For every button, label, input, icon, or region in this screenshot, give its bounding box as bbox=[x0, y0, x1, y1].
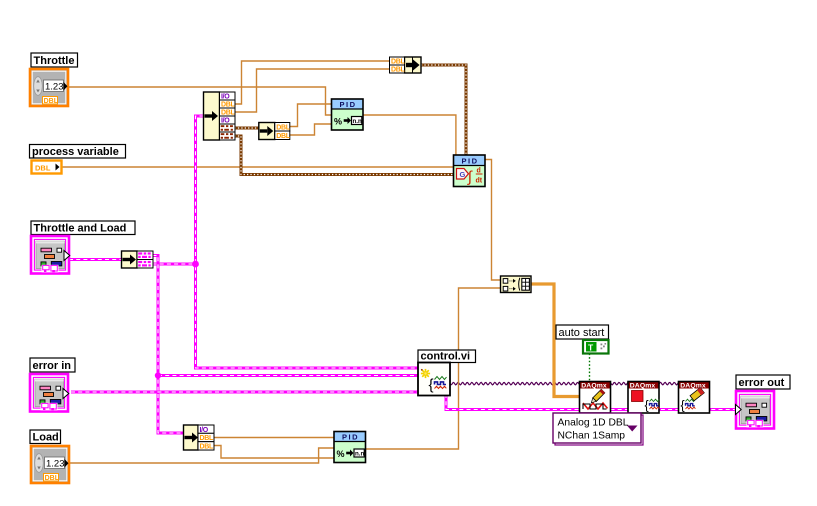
wire Throttle to PID1 setpoint bbox=[68, 87, 332, 115]
wire unbundle part1 vertical B to unbundle3 bbox=[153, 256, 184, 434]
wire unbundle2 bottom to PID1 bbox=[290, 124, 333, 135]
svg-text:Load: Load bbox=[33, 432, 59, 444]
svg-text:NChan 1Samp: NChan 1Samp bbox=[558, 431, 626, 442]
svg-text:process variable: process variable bbox=[32, 146, 119, 158]
svg-text:PID: PID bbox=[462, 157, 479, 166]
wire unbundle2 top to PID1 bbox=[290, 104, 333, 127]
svg-text:{: { bbox=[429, 377, 434, 394]
DAQmx node Write bbox=[580, 382, 611, 414]
wire cluster vertical A to unbundle-by-name and control.vi bbox=[196, 116, 419, 368]
svg-text:n.n: n.n bbox=[355, 451, 364, 458]
cluster error out bbox=[736, 391, 775, 429]
svg-text:auto start: auto start bbox=[559, 327, 605, 339]
svg-text:n.n: n.n bbox=[353, 118, 362, 125]
wire PID2 output to build array bbox=[485, 160, 501, 281]
svg-text:PID: PID bbox=[342, 433, 359, 442]
wire process variable to PID2 bbox=[61, 166, 454, 168]
svg-text:T: T bbox=[588, 343, 594, 353]
label process variable bbox=[30, 145, 126, 159]
label Throttle bbox=[31, 53, 78, 67]
unbundle-by-name Throttle/Load cluster bbox=[204, 92, 236, 140]
cluster Throttle and Load bbox=[31, 236, 70, 274]
svg-text:DBL: DBL bbox=[200, 443, 215, 450]
unbundle Throttle and Load cluster bbox=[122, 251, 154, 268]
svg-text:PID: PID bbox=[340, 100, 357, 109]
svg-text:{: { bbox=[681, 399, 685, 413]
svg-text:{: { bbox=[645, 399, 649, 413]
unbundle-by-name Load cluster bbox=[184, 425, 215, 450]
label error in bbox=[30, 358, 75, 372]
label Throttle and Load bbox=[31, 221, 135, 235]
DAQmx node Start bbox=[628, 382, 659, 414]
wire unbundle part2 to vertical A bbox=[153, 263, 196, 266]
svg-text:Throttle and Load: Throttle and Load bbox=[34, 223, 127, 235]
svg-text:DBL: DBL bbox=[200, 435, 215, 442]
wire vertical B branch to control.vi bbox=[158, 374, 419, 377]
terminal process variable DBL bbox=[32, 161, 62, 174]
svg-text:DBL: DBL bbox=[276, 125, 291, 132]
wire junction on vertical B bbox=[155, 372, 161, 378]
unbundle cluster to two DBL bbox=[259, 123, 291, 141]
svg-text:G: G bbox=[460, 170, 466, 179]
svg-text:Throttle: Throttle bbox=[34, 55, 75, 67]
wire auto start boolean to DAQmx write bbox=[589, 354, 591, 382]
svg-text:control.vi: control.vi bbox=[421, 351, 471, 363]
svg-text:error out: error out bbox=[739, 377, 785, 389]
wire unbundle DBL1 to bundle bbox=[235, 61, 390, 104]
svg-text:DAQmx: DAQmx bbox=[630, 383, 656, 390]
bundle two DBL to cluster bbox=[390, 57, 422, 74]
numeric control Load bbox=[31, 446, 69, 483]
svg-text:DBL: DBL bbox=[276, 133, 291, 140]
wire Throttle and Load to unbundle bbox=[69, 258, 122, 261]
numeric control Throttle bbox=[30, 69, 68, 106]
svg-text:1.23: 1.23 bbox=[45, 82, 64, 93]
wire PID1 output to PID2 bbox=[363, 115, 456, 156]
wire cluster to unbundle2 bbox=[235, 127, 260, 130]
cluster error in bbox=[30, 374, 69, 412]
svg-text:DBL: DBL bbox=[45, 475, 60, 482]
wire cluster to PID2 bbox=[235, 136, 454, 175]
wire junction on vertical A bbox=[192, 261, 199, 268]
wire Load to PID3 bbox=[68, 448, 335, 463]
sub-VI PID2 (PID.vi) bbox=[454, 155, 486, 187]
svg-text:DAQmx: DAQmx bbox=[581, 383, 607, 390]
wire DAQmx task (wavy) control.vi to DAQmx nodes bbox=[450, 382, 708, 385]
svg-text:DAQmx: DAQmx bbox=[680, 383, 706, 390]
svg-text:DBL: DBL bbox=[35, 164, 51, 173]
boolean constant TRUE (auto start) bbox=[583, 340, 609, 354]
wire PID3 output to build array bbox=[364, 288, 501, 449]
wire DBL array build array to DAQmx write bbox=[531, 284, 580, 397]
sub-VI control.vi icon bbox=[418, 363, 450, 396]
svg-text:DBL: DBL bbox=[391, 67, 406, 74]
wire unbundle3 DBL2 to PID3 bbox=[214, 446, 335, 459]
svg-text:dt: dt bbox=[476, 177, 483, 184]
build array node bbox=[501, 276, 532, 293]
svg-text:%: % bbox=[334, 117, 342, 127]
wire unbundle3 DBL1 to PID3 bbox=[214, 437, 335, 439]
sub-VI PID1 (percent to n.n) bbox=[332, 99, 364, 130]
wire unbundle DBL2 to bundle bbox=[235, 69, 390, 112]
label error out bbox=[736, 375, 790, 389]
label Load bbox=[30, 430, 61, 444]
wire bundle output to PID2 bbox=[421, 65, 466, 156]
svg-text:%: % bbox=[337, 449, 345, 459]
wire error in to control.vi bbox=[71, 391, 419, 394]
svg-text:error in: error in bbox=[33, 360, 72, 372]
svg-text:Analog 1D DBL: Analog 1D DBL bbox=[558, 418, 629, 429]
sub-VI PID3 (percent to n.n) bbox=[334, 432, 366, 463]
svg-text:I/O: I/O bbox=[200, 427, 209, 434]
label control.vi bbox=[418, 350, 476, 363]
wire error chain control.vi to error out bbox=[446, 394, 737, 410]
svg-text:1.23: 1.23 bbox=[46, 459, 65, 470]
svg-text:DBL: DBL bbox=[44, 98, 59, 105]
DAQmx node Clear bbox=[679, 382, 710, 414]
polymorphic selector Analog 1D DBL NChan 1Samp bbox=[553, 413, 643, 445]
label auto start bbox=[556, 325, 609, 339]
